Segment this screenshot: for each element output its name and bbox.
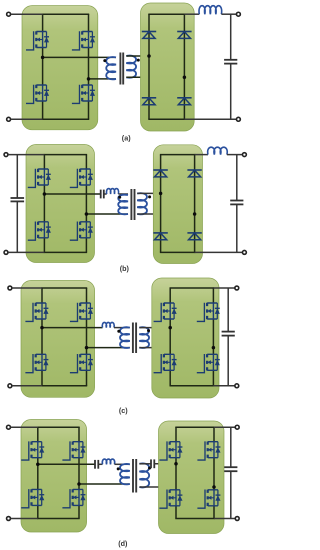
wire C input top lead bbox=[12, 287, 42, 289]
wire C-secondary-bridge right leg lower bbox=[212, 370, 214, 386]
transformer B core bbox=[131, 189, 134, 220]
transformer C core bbox=[133, 323, 136, 354]
polarity dot A secondary bbox=[137, 59, 140, 62]
diode A top-right bbox=[177, 32, 191, 39]
junction D left-leg midpoint bbox=[36, 463, 40, 467]
wire A inductor to output terminal bbox=[221, 13, 236, 15]
transformer B primary winding bbox=[118, 195, 128, 215]
resonant capacitor D secondary bbox=[151, 459, 154, 468]
MOSFET B-inverter low-side left bbox=[28, 222, 51, 241]
wire C-secondary-bridge right leg middle bbox=[212, 319, 214, 354]
output capacitor B bbox=[230, 201, 243, 205]
resonant inductor B bbox=[106, 189, 118, 194]
wire C-primary-bridge bottom rail bbox=[41, 385, 87, 387]
output terminal B- bbox=[242, 250, 246, 254]
MOSFET C-secondary-bridge low-side right bbox=[197, 354, 220, 373]
wire B inductor to output terminal bbox=[227, 154, 242, 156]
svg-text:(b): (b) bbox=[120, 264, 130, 273]
wire A rectifier left leg bbox=[148, 14, 150, 119]
MOSFET A-inverter low-side left bbox=[26, 85, 49, 104]
transformer D primary winding bbox=[120, 464, 130, 484]
wire A primary bottom bbox=[89, 78, 117, 80]
wire B-inverter right leg middle bbox=[85, 185, 87, 222]
MOSFET D-primary-bridge high-side left bbox=[21, 441, 44, 460]
MOSFET A-inverter high-side right bbox=[72, 31, 95, 50]
diode A bottom-right bbox=[177, 98, 191, 105]
wire A rectifier to filter inductor bbox=[184, 13, 199, 15]
diode A bottom-left bbox=[142, 98, 156, 105]
diode B top-right bbox=[187, 170, 201, 177]
wire C input bottom lead bbox=[12, 385, 42, 387]
junction B right-leg midpoint bbox=[85, 212, 89, 216]
polarity dot C secondary bbox=[147, 329, 150, 332]
wire B input capacitor branch lower bbox=[16, 201, 18, 252]
MOSFET C-secondary-bridge high-side left bbox=[154, 303, 177, 322]
wire D-secondary-bridge left leg lower bbox=[175, 506, 177, 519]
wire A-inverter right leg middle bbox=[88, 48, 90, 86]
wire C inductor to primary bbox=[114, 327, 130, 329]
wire B inductor to primary bbox=[118, 193, 128, 195]
input terminal A+ bbox=[7, 12, 11, 16]
wire B rectifier to filter inductor bbox=[195, 154, 208, 156]
transformer A primary winding bbox=[106, 57, 116, 79]
wire D-primary-bridge right leg lower bbox=[78, 505, 80, 518]
wire C-secondary-bridge left leg upper bbox=[169, 288, 171, 303]
wire B bridge to resonant capacitor bbox=[44, 193, 100, 195]
wire A input bottom lead bbox=[11, 118, 43, 120]
junction D secondary left AC node bbox=[174, 462, 178, 466]
wire D-primary-bridge left leg lower bbox=[37, 505, 39, 518]
D-primary-bridge bridge background box bbox=[21, 420, 87, 533]
polarity dot D primary bbox=[117, 467, 120, 470]
filter inductor A bbox=[199, 6, 222, 14]
MOSFET D-secondary-bridge high-side left bbox=[159, 441, 182, 460]
wire B output capacitor branch upper bbox=[236, 155, 238, 201]
wire D inductor to primary bbox=[115, 463, 130, 465]
wire A rectifier bottom rail bbox=[148, 118, 185, 120]
wire D-primary-bridge top rail bbox=[37, 426, 80, 428]
wire A-inverter left leg middle bbox=[42, 48, 44, 86]
diode B bottom-left bbox=[153, 233, 167, 240]
wire D output bottom lead bbox=[214, 518, 235, 520]
wire B rectifier left leg bbox=[160, 155, 162, 253]
junction B rectifier left AC node bbox=[159, 192, 163, 196]
output terminal C- bbox=[235, 384, 239, 388]
MOSFET C-secondary-bridge high-side right bbox=[197, 303, 220, 322]
output capacitor C bbox=[222, 332, 235, 336]
transformer C primary winding bbox=[120, 327, 130, 348]
wire A-inverter right leg upper bbox=[88, 14, 90, 31]
input capacitor B bbox=[11, 198, 25, 201]
polarity dot C primary bbox=[117, 330, 120, 333]
junction D right-leg midpoint bbox=[77, 482, 81, 486]
MOSFET C-secondary-bridge low-side left bbox=[154, 354, 177, 373]
resonant inductor D bbox=[102, 459, 114, 464]
junction B left-leg midpoint bbox=[43, 192, 47, 196]
wire C output bottom lead bbox=[213, 385, 234, 387]
input terminal B- bbox=[4, 250, 8, 254]
wire A output capacitor branch upper bbox=[230, 14, 232, 60]
wire A output capacitor branch lower bbox=[230, 64, 232, 120]
wire C-primary-bridge left leg lower bbox=[41, 370, 43, 386]
wire D output top lead bbox=[214, 426, 235, 428]
MOSFET D-secondary-bridge high-side right bbox=[197, 441, 220, 460]
junction C secondary left AC node bbox=[168, 326, 172, 330]
A-inverter bridge background box bbox=[22, 6, 98, 130]
wire A output bottom lead bbox=[184, 118, 236, 120]
wire B-inverter left leg middle bbox=[43, 185, 45, 222]
output terminal D- bbox=[235, 517, 239, 521]
wire A-inverter left leg upper bbox=[42, 14, 44, 31]
wire C-primary-bridge left leg upper bbox=[41, 288, 43, 303]
input terminal D+ bbox=[7, 425, 11, 429]
wire C bridge to series inductor bbox=[42, 327, 103, 329]
wire C-secondary-bridge bottom rail bbox=[170, 385, 215, 387]
MOSFET C-primary-bridge low-side right bbox=[70, 354, 93, 373]
wire D-secondary-bridge left leg upper bbox=[175, 427, 177, 442]
wire B secondary top bbox=[137, 192, 160, 194]
resonant capacitor B bbox=[101, 190, 104, 199]
input terminal D- bbox=[7, 517, 11, 521]
transformer D core bbox=[133, 459, 136, 493]
wire C-primary-bridge top rail bbox=[41, 287, 87, 289]
wire C-primary-bridge left leg middle bbox=[41, 319, 43, 354]
input terminal C- bbox=[8, 384, 12, 388]
wire D secondary bottom bbox=[139, 486, 214, 488]
wire C-primary-bridge right leg middle bbox=[86, 319, 88, 354]
output terminal A- bbox=[236, 117, 240, 121]
wire D input top lead bbox=[11, 426, 38, 428]
MOSFET A-inverter high-side left bbox=[26, 31, 49, 50]
transformer A core bbox=[120, 53, 123, 85]
output capacitor A bbox=[224, 60, 237, 64]
wire D-primary-bridge left leg middle bbox=[37, 458, 39, 490]
wire B-inverter left leg lower bbox=[43, 238, 45, 253]
wire B input top lead bbox=[8, 154, 44, 156]
wire C-secondary-bridge left leg lower bbox=[169, 370, 171, 386]
MOSFET B-inverter high-side right bbox=[70, 169, 93, 188]
polarity dot B primary bbox=[118, 196, 121, 199]
wire C output top lead bbox=[213, 287, 234, 289]
wire B input bottom lead bbox=[8, 251, 44, 253]
wire B rectifier bottom rail bbox=[160, 251, 195, 253]
wire D-primary-bridge right leg upper bbox=[78, 427, 80, 442]
junction A rectifier right AC node bbox=[183, 76, 187, 80]
wire D-primary-bridge left leg upper bbox=[37, 427, 39, 442]
wire B-inverter top rail bbox=[44, 154, 87, 156]
wire A secondary bottom bbox=[126, 76, 184, 78]
output terminal A+ bbox=[236, 12, 240, 16]
transformer D secondary winding bbox=[139, 463, 149, 487]
wire A rectifier top rail bbox=[148, 13, 185, 15]
A rectifier background box bbox=[141, 3, 195, 131]
junction A rectifier left AC node bbox=[147, 54, 151, 58]
transformer B secondary winding bbox=[137, 193, 147, 214]
polarity dot A primary bbox=[103, 59, 106, 62]
B rectifier background box bbox=[153, 145, 202, 264]
wire B secondary bottom bbox=[137, 213, 194, 215]
diode B bottom-right bbox=[187, 233, 201, 240]
input terminal A- bbox=[7, 117, 11, 121]
MOSFET C-primary-bridge high-side right bbox=[70, 303, 93, 322]
MOSFET C-primary-bridge low-side left bbox=[25, 354, 48, 373]
junction C secondary right AC node bbox=[212, 346, 216, 350]
diode A top-left bbox=[142, 32, 156, 39]
wire B-inverter right leg upper bbox=[85, 155, 87, 169]
polarity dot B secondary bbox=[148, 195, 151, 198]
wire D secondary capacitor to bridge bbox=[154, 463, 176, 465]
wire D primary bottom bbox=[79, 483, 130, 485]
wire A input top lead bbox=[11, 13, 43, 15]
wire A-inverter bottom rail bbox=[42, 118, 89, 120]
svg-text:(d): (d) bbox=[118, 539, 128, 548]
wire B rectifier top rail bbox=[160, 154, 195, 156]
MOSFET D-primary-bridge low-side left bbox=[21, 489, 44, 508]
MOSFET D-primary-bridge high-side right bbox=[62, 441, 85, 460]
wire A-inverter right leg lower bbox=[88, 101, 90, 119]
MOSFET A-inverter low-side right bbox=[72, 85, 95, 104]
MOSFET C-primary-bridge high-side left bbox=[25, 303, 48, 322]
wire D-secondary-bridge right leg lower bbox=[213, 506, 215, 519]
wire C-secondary-bridge top rail bbox=[170, 287, 215, 289]
resonant capacitor D primary bbox=[95, 460, 98, 469]
wire C output capacitor branch upper bbox=[227, 288, 229, 332]
wire C-primary-bridge right leg lower bbox=[86, 370, 88, 386]
wire B-inverter bottom rail bbox=[44, 251, 87, 253]
input terminal C+ bbox=[8, 286, 12, 290]
transformer C secondary winding bbox=[139, 327, 149, 348]
MOSFET D-primary-bridge low-side right bbox=[62, 489, 85, 508]
polarity dot D secondary bbox=[148, 467, 151, 470]
wire C-secondary-bridge right leg upper bbox=[212, 288, 214, 303]
wire D-primary-bridge right leg middle bbox=[78, 458, 80, 490]
wire B output bottom lead bbox=[195, 251, 243, 253]
wire C-primary-bridge right leg upper bbox=[86, 288, 88, 303]
output terminal B+ bbox=[242, 153, 246, 157]
junction A left-leg midpoint bbox=[41, 56, 45, 60]
wire A rectifier right leg bbox=[183, 14, 185, 119]
transformer A secondary winding bbox=[126, 56, 136, 78]
wire C secondary top bbox=[139, 327, 170, 329]
MOSFET B-inverter low-side right bbox=[70, 222, 93, 241]
junction D secondary right AC node bbox=[212, 485, 216, 489]
D-secondary-bridge bridge background box bbox=[159, 421, 225, 534]
wire B input capacitor branch upper bbox=[16, 155, 18, 198]
wire D-secondary-bridge right leg upper bbox=[213, 427, 215, 442]
wire D bridge to resonant capacitor bbox=[38, 463, 95, 465]
diode B top-left bbox=[153, 170, 167, 177]
series inductor C bbox=[102, 322, 114, 327]
MOSFET D-secondary-bridge low-side left bbox=[159, 490, 182, 509]
junction C left-leg midpoint bbox=[40, 326, 44, 330]
wire C secondary bottom bbox=[139, 347, 213, 349]
wire D-secondary-bridge left leg middle bbox=[175, 458, 177, 490]
junction A right-leg midpoint bbox=[87, 77, 91, 81]
C-primary-bridge bridge background box bbox=[21, 281, 95, 398]
input terminal B+ bbox=[4, 153, 8, 157]
wire D-secondary-bridge right leg middle bbox=[213, 458, 215, 490]
wire A-inverter left leg lower bbox=[42, 101, 44, 119]
wire D secondary top bbox=[139, 463, 151, 465]
wire D output capacitor branch lower bbox=[230, 471, 232, 518]
wire B-inverter left leg upper bbox=[43, 155, 45, 169]
wire D-secondary-bridge top rail bbox=[175, 426, 214, 428]
filter inductor B bbox=[208, 147, 228, 154]
wire D resonant capacitor to inductor bbox=[98, 463, 102, 465]
wire D-primary-bridge bottom rail bbox=[37, 518, 80, 520]
output terminal D+ bbox=[235, 425, 239, 429]
svg-text:(c): (c) bbox=[119, 406, 128, 415]
wire C output capacitor branch lower bbox=[227, 336, 229, 386]
output capacitor D bbox=[224, 467, 237, 471]
svg-text:(a): (a) bbox=[122, 134, 131, 143]
wire D output capacitor branch upper bbox=[230, 427, 232, 467]
wire B-inverter right leg lower bbox=[85, 238, 87, 253]
wire B rectifier right leg bbox=[194, 155, 196, 253]
wire B primary bottom bbox=[86, 213, 128, 215]
B-inverter bridge background box bbox=[26, 145, 95, 263]
junction C right-leg midpoint bbox=[85, 346, 89, 350]
MOSFET B-inverter high-side left bbox=[28, 169, 51, 188]
output terminal C+ bbox=[235, 286, 239, 290]
junction B rectifier right AC node bbox=[193, 212, 197, 216]
wire A-inverter top rail bbox=[42, 13, 89, 15]
wire B resonant capacitor to inductor bbox=[104, 193, 107, 195]
wire B output capacitor branch lower bbox=[236, 204, 238, 252]
wire A primary top bbox=[43, 56, 116, 58]
wire C primary bottom bbox=[87, 347, 130, 349]
wire D input bottom lead bbox=[11, 518, 38, 520]
wire D-secondary-bridge bottom rail bbox=[175, 518, 214, 520]
wire A secondary top bbox=[126, 55, 149, 57]
wire C-secondary-bridge left leg middle bbox=[169, 319, 171, 354]
MOSFET D-secondary-bridge low-side right bbox=[197, 490, 220, 509]
C-secondary-bridge bridge background box bbox=[152, 278, 219, 398]
